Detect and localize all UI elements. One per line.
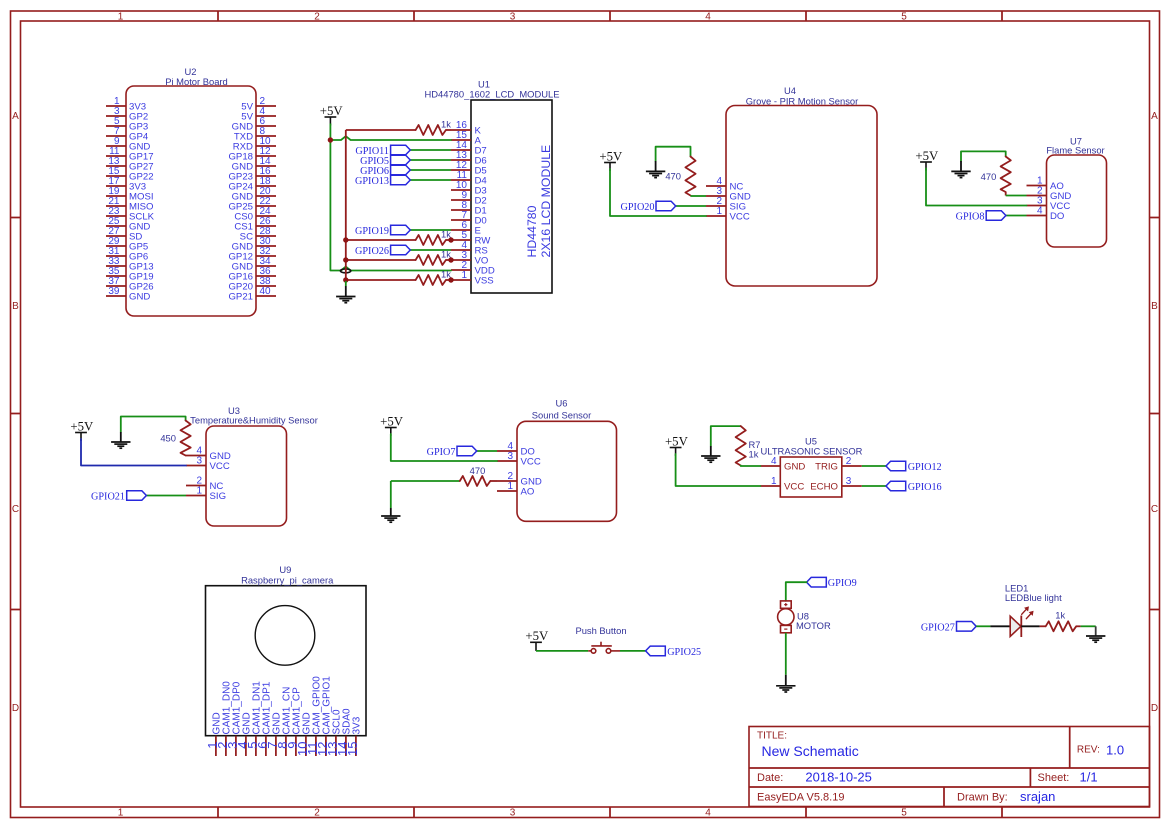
svg-text:B: B bbox=[1151, 301, 1158, 312]
junction RW left bbox=[343, 237, 348, 242]
junction VO right bbox=[448, 257, 453, 262]
svg-text:+5V: +5V bbox=[380, 414, 404, 428]
title block text TITLE bbox=[757, 731, 787, 742]
sensor U7 body bbox=[1047, 155, 1107, 247]
U4 reference designator bbox=[784, 85, 796, 96]
wire hop ellipse at VDD crossing bbox=[340, 269, 350, 273]
Sheet label bbox=[1038, 772, 1070, 784]
svg-text:DO: DO bbox=[1050, 211, 1064, 222]
U2 pin 4 5V bbox=[241, 106, 276, 123]
junction RW right bbox=[448, 237, 453, 242]
U9 pin 1 GND bbox=[205, 712, 223, 756]
svg-text:39: 39 bbox=[108, 286, 120, 297]
svg-text:+5V: +5V bbox=[320, 104, 344, 118]
U2 pin 29 GP5 bbox=[106, 236, 148, 253]
net label flag GPIO19 bbox=[391, 225, 411, 235]
power flag +5V (U3) bbox=[70, 419, 94, 441]
svg-text:1: 1 bbox=[196, 486, 202, 497]
resistor R7 value 1k bbox=[749, 449, 759, 460]
svg-text:2: 2 bbox=[314, 12, 320, 23]
U1 pin 10 D3 bbox=[451, 180, 487, 197]
resistor 1k (LED) value bbox=[1055, 610, 1065, 621]
U2 pin 11 GP17 bbox=[106, 146, 154, 163]
net label flag GPIO9 bbox=[807, 577, 827, 587]
ground (U1) bbox=[336, 297, 355, 303]
U5 value ULTRASONIC SENSOR bbox=[761, 446, 863, 457]
U8 reference designator bbox=[797, 611, 809, 622]
U9 pin 14 SDA0 bbox=[335, 708, 353, 756]
LED1 symbol bbox=[1010, 607, 1033, 637]
net label flag GPIO25 bbox=[646, 646, 666, 656]
junction A/+5V bbox=[328, 137, 333, 142]
junction VSS left bbox=[343, 277, 348, 282]
U5 pin 1 VCC bbox=[760, 476, 804, 493]
svg-text:+5V: +5V bbox=[665, 434, 689, 448]
title New Schematic bbox=[762, 743, 859, 759]
U1 pin 3 VO bbox=[451, 250, 488, 267]
svg-text:470: 470 bbox=[470, 465, 486, 476]
ground stem (U5) bbox=[710, 446, 712, 456]
svg-text:40: 40 bbox=[260, 286, 272, 297]
U3 pin 3 VCC bbox=[186, 456, 230, 473]
svg-text:Temperature&Humidity Sensor: Temperature&Humidity Sensor bbox=[190, 415, 318, 426]
ground stem (LED) bbox=[1095, 626, 1097, 636]
U9 pin 5 CAM1_DN1 bbox=[245, 681, 263, 756]
svg-text:GPIO13: GPIO13 bbox=[355, 176, 389, 187]
U1 pin 1 VSS bbox=[451, 270, 494, 287]
U2 pin 27 SD bbox=[106, 226, 142, 243]
ground (U8) bbox=[776, 686, 795, 692]
U2 pin 38 GP20 bbox=[228, 276, 276, 293]
svg-text:GPIO8: GPIO8 bbox=[956, 212, 985, 223]
U6 pin 2 GND bbox=[497, 471, 542, 488]
U2 reference designator bbox=[185, 66, 197, 77]
U2 pin 23 SCLK bbox=[106, 206, 155, 223]
svg-text:srajan: srajan bbox=[1020, 789, 1055, 804]
wire VDD horizontal with hop bbox=[330, 267, 451, 271]
svg-text:Drawn By:: Drawn By: bbox=[957, 792, 1008, 804]
wire GPIO9 to motor bbox=[786, 582, 807, 601]
resistor 450 (U3) bbox=[181, 421, 191, 456]
U7 pin 4 DO bbox=[1027, 206, 1065, 223]
svg-text:VCC: VCC bbox=[784, 482, 804, 493]
ground stem (U1) bbox=[345, 286, 347, 297]
U2 pin 25 GND bbox=[106, 216, 150, 233]
connector U2 body bbox=[126, 86, 256, 316]
U3 value Temperature&Humidity Sensor bbox=[190, 415, 318, 426]
U6 value Sound Sensor bbox=[532, 410, 591, 421]
svg-text:4: 4 bbox=[705, 808, 711, 819]
U1 rotated text HD44780 bbox=[525, 205, 539, 257]
ground stem (U4) bbox=[655, 161, 657, 171]
U9 pin 4 GND bbox=[235, 712, 253, 756]
U4 pin 4 NC bbox=[706, 176, 743, 193]
svg-text:SIG: SIG bbox=[210, 491, 227, 502]
svg-text:3: 3 bbox=[510, 808, 516, 819]
resistor 1k (VSS) value bbox=[441, 269, 451, 280]
U2 value Pi Motor Board bbox=[165, 76, 228, 87]
REV label bbox=[1077, 745, 1100, 756]
U6 pin 4 DO bbox=[497, 441, 535, 458]
resistor 470 (U6) value bbox=[470, 465, 486, 476]
frame row labels right bbox=[1151, 111, 1158, 714]
U1 reference designator bbox=[478, 79, 490, 90]
wire VO net bbox=[346, 259, 451, 261]
svg-text:3V3: 3V3 bbox=[352, 716, 363, 734]
U5 pin 4 GND bbox=[760, 456, 805, 473]
sensor U6 body bbox=[517, 421, 617, 521]
wire GPIO20 to U4 SIG bbox=[676, 205, 706, 207]
svg-text:GP21: GP21 bbox=[228, 292, 253, 303]
svg-text:Raspberry_pi_camera: Raspberry_pi_camera bbox=[241, 575, 334, 586]
resistor 470 (U6) bbox=[460, 476, 497, 486]
resistor 470 (U7) value bbox=[981, 171, 997, 182]
wire GPIO11 to U1 bbox=[410, 149, 451, 151]
U2 pin 18 GP24 bbox=[228, 176, 276, 193]
U2 pin 16 GP23 bbox=[228, 166, 276, 183]
wire +5V to button bbox=[536, 650, 588, 652]
svg-text:D: D bbox=[1151, 703, 1158, 714]
svg-text:VCC: VCC bbox=[730, 212, 750, 223]
net label flag GPIO8 bbox=[986, 211, 1006, 221]
U2 pin 39 GND bbox=[106, 286, 150, 303]
resistor 1k (VO) value bbox=[441, 249, 451, 260]
ground stem (U6) bbox=[390, 508, 392, 516]
wire ground to resistor (U6) bbox=[391, 480, 460, 482]
ground (U5) bbox=[701, 456, 720, 462]
Sheet value 1/1 bbox=[1080, 769, 1098, 784]
svg-text:GPIO12: GPIO12 bbox=[908, 462, 942, 473]
svg-text:GPIO19: GPIO19 bbox=[355, 226, 389, 237]
U2 pin 5 GP3 bbox=[106, 116, 148, 133]
svg-text:2: 2 bbox=[846, 456, 852, 467]
U2 pin 17 3V3 bbox=[106, 176, 146, 193]
IC U1 body bbox=[471, 100, 552, 293]
U4 pin 2 SIG bbox=[706, 196, 746, 213]
ground stem (U3) bbox=[120, 432, 122, 442]
ground (LED) bbox=[1086, 636, 1105, 642]
net label text GPIO6 bbox=[360, 166, 389, 177]
net label flag GPIO12 bbox=[886, 461, 906, 471]
net label flag GPIO20 bbox=[656, 201, 676, 211]
svg-text:3: 3 bbox=[510, 12, 516, 23]
svg-text:4: 4 bbox=[771, 456, 777, 467]
resistor R7 1k (U5) bbox=[736, 426, 746, 465]
U4 pin 3 GND bbox=[706, 186, 751, 203]
U6 reference designator bbox=[556, 398, 568, 409]
wire LED cathode to resistor (black) bbox=[1021, 625, 1039, 627]
U3 reference designator bbox=[228, 405, 240, 416]
svg-text:VSS: VSS bbox=[475, 276, 494, 287]
push button S1 bbox=[588, 642, 620, 654]
U1 pin 2 VDD bbox=[451, 260, 495, 277]
svg-text:1: 1 bbox=[507, 481, 513, 492]
frame row labels left bbox=[12, 111, 19, 714]
power flag +5V (U4) bbox=[599, 149, 623, 171]
svg-text:15: 15 bbox=[345, 742, 360, 756]
wire +5V to U6 VCC bbox=[391, 434, 497, 461]
svg-text:GPIO26: GPIO26 bbox=[355, 246, 389, 257]
U2 pin 7 GP4 bbox=[106, 126, 149, 143]
svg-text:3: 3 bbox=[846, 476, 852, 487]
wire motor to ground bbox=[785, 633, 787, 675]
svg-text:1: 1 bbox=[118, 12, 124, 23]
U2 pin 2 5V bbox=[241, 96, 276, 113]
svg-text:GPIO16: GPIO16 bbox=[908, 482, 942, 493]
U1 pin 14 D7 bbox=[451, 140, 487, 157]
svg-text:5: 5 bbox=[901, 808, 907, 819]
U1 pin 8 D1 bbox=[451, 200, 487, 217]
net label text GPIO26 bbox=[355, 246, 389, 257]
svg-text:GND: GND bbox=[784, 462, 805, 473]
resistor 1k (VO) bbox=[416, 255, 446, 265]
U1 pin 6 E bbox=[451, 220, 481, 237]
svg-text:1k: 1k bbox=[1055, 610, 1065, 621]
ground (U3) bbox=[111, 442, 130, 448]
wire resistor to U7 GND bbox=[1006, 195, 1027, 197]
U2 pin 21 MISO bbox=[106, 196, 154, 213]
U2 pin 40 GP21 bbox=[228, 286, 276, 303]
svg-text:GPIO21: GPIO21 bbox=[91, 492, 125, 503]
sensor U3 body bbox=[206, 426, 287, 526]
U1 pin 16 K bbox=[451, 120, 482, 137]
net label flag GPIO26 bbox=[391, 245, 411, 255]
svg-text:5: 5 bbox=[901, 12, 907, 23]
svg-text:C: C bbox=[12, 504, 19, 515]
U1 pin 15 A bbox=[451, 130, 482, 147]
svg-text:GPIO9: GPIO9 bbox=[828, 578, 857, 589]
power flag +5V (U7) bbox=[915, 149, 939, 171]
power flag +5V (U6) bbox=[380, 414, 404, 436]
U2 pin 22 GP25 bbox=[228, 196, 276, 213]
svg-text:1k: 1k bbox=[749, 449, 759, 460]
svg-text:+5V: +5V bbox=[915, 149, 939, 163]
U9 pin 8 CAM1_CN bbox=[275, 687, 293, 756]
svg-text:470: 470 bbox=[665, 171, 681, 182]
wire ground link (U7) bbox=[961, 151, 1006, 161]
wire ground drop (U6) bbox=[390, 481, 392, 508]
U1 pin 7 D0 bbox=[451, 210, 487, 227]
svg-text:HD44780_1602_LCD_MODULE: HD44780_1602_LCD_MODULE bbox=[425, 89, 560, 100]
U2 pin 36 GP16 bbox=[228, 266, 276, 283]
U9 value Raspberry_pi_camera bbox=[241, 575, 334, 586]
net label text GPIO12 bbox=[908, 462, 942, 473]
wire resistor to U4 GND bbox=[691, 195, 707, 197]
U2 pin 3 GP2 bbox=[106, 106, 148, 123]
svg-text:1: 1 bbox=[118, 808, 124, 819]
wire A net with hop bbox=[330, 136, 451, 140]
U2 pin 12 GP18 bbox=[228, 146, 276, 163]
svg-text:LEDBlue light: LEDBlue light bbox=[1005, 592, 1062, 603]
resistor 1k (RW) bbox=[416, 235, 446, 245]
REV value 1.0 bbox=[1106, 743, 1124, 758]
U2 pin 1 3V3 bbox=[106, 96, 146, 113]
svg-text:REV:: REV: bbox=[1077, 745, 1100, 756]
svg-text:1.0: 1.0 bbox=[1106, 743, 1124, 758]
U7 pin 2 GND bbox=[1027, 186, 1072, 203]
svg-text:A: A bbox=[12, 111, 19, 122]
ground stem (U8) bbox=[785, 675, 787, 686]
svg-text:C: C bbox=[1151, 504, 1158, 515]
wire ground link (U3) bbox=[121, 417, 186, 433]
U1 pin 13 D6 bbox=[451, 150, 487, 167]
resistor 1k (VSS) bbox=[416, 275, 446, 285]
U2 pin 10 RXD bbox=[233, 136, 276, 153]
U2 pin 13 GP27 bbox=[106, 156, 154, 173]
resistor 450 (U3) value bbox=[160, 433, 176, 444]
U1 rotated text 2X16 LCD MODULE bbox=[539, 145, 553, 258]
svg-text:470: 470 bbox=[981, 171, 997, 182]
resistor 470 (U4) bbox=[685, 157, 695, 196]
net label text GPIO5 bbox=[360, 156, 389, 167]
U9 pin 12 CAM_GPIO1 bbox=[315, 676, 333, 756]
net label flag GPIO5 bbox=[391, 155, 411, 165]
net label text GPIO19 bbox=[355, 226, 389, 237]
net label flag GPIO13 bbox=[391, 175, 411, 185]
wire to LED anode (black) bbox=[990, 625, 1010, 627]
U1 pin 4 RS bbox=[451, 240, 488, 257]
svg-text:2X16 LCD MODULE: 2X16 LCD MODULE bbox=[539, 145, 553, 258]
U6 pin 3 VCC bbox=[497, 451, 541, 468]
svg-text:ULTRASONIC SENSOR: ULTRASONIC SENSOR bbox=[761, 446, 863, 457]
power flag +5V (U5) bbox=[665, 434, 689, 456]
U2 pin 20 GND bbox=[232, 186, 276, 203]
net label flag GPIO7 bbox=[457, 446, 477, 456]
wire +5V to U7 VCC bbox=[926, 169, 1027, 206]
svg-text:Sound Sensor: Sound Sensor bbox=[532, 410, 591, 421]
net label flag GPIO21 bbox=[127, 491, 147, 501]
net label flag GPIO16 bbox=[886, 481, 906, 491]
wire button to GPIO25 bbox=[620, 650, 646, 652]
U1 pin 9 D2 bbox=[451, 190, 487, 207]
wire GPIO7 to U6 DO bbox=[477, 450, 497, 452]
svg-text:1: 1 bbox=[716, 206, 722, 217]
U7 pin 1 AO bbox=[1027, 176, 1064, 193]
U9 pin 2 CAM1_DN0 bbox=[215, 681, 233, 756]
wire GPIO19 to U1 bbox=[410, 229, 451, 231]
U2 pin 24 CS0 bbox=[234, 206, 276, 223]
U2 pin 37 GP26 bbox=[106, 276, 154, 293]
Drawn By value srajan bbox=[1020, 789, 1055, 804]
wire ground link (U5) bbox=[711, 426, 741, 446]
resistor 1k (K) value bbox=[441, 119, 451, 130]
wire +5V to U4 VCC bbox=[610, 169, 706, 216]
net label flag GPIO6 bbox=[391, 165, 411, 175]
junction VSS right bbox=[448, 277, 453, 282]
net label flag GPIO27 bbox=[957, 622, 977, 632]
svg-text:HD44780: HD44780 bbox=[525, 205, 539, 257]
wire ground link (U4) bbox=[656, 147, 691, 161]
U9 reference designator bbox=[279, 564, 291, 575]
U2 pin 28 SC bbox=[240, 226, 276, 243]
U2 pin 14 GND bbox=[232, 156, 276, 173]
wire +5V to U3 VCC (dark blue) bbox=[81, 439, 186, 466]
svg-text:TRIG: TRIG bbox=[815, 462, 838, 473]
U2 pin 30 GND bbox=[232, 236, 276, 253]
svg-text:AO: AO bbox=[521, 487, 535, 498]
wire GPIO27 to LED (green) bbox=[976, 625, 990, 627]
resistor 1k (K) bbox=[416, 125, 446, 135]
U1 pin 11 D4 bbox=[451, 170, 487, 187]
U2 pin 33 GP13 bbox=[106, 256, 154, 273]
net label text GPIO7 bbox=[427, 447, 456, 458]
U5 reference designator bbox=[805, 436, 817, 447]
U3 pin 4 GND bbox=[186, 446, 231, 463]
svg-text:VCC: VCC bbox=[210, 461, 230, 472]
wire U5 TRIG to GPIO12 bbox=[862, 465, 886, 467]
wire resistor to ground (green) bbox=[1081, 625, 1096, 627]
svg-text:Sheet:: Sheet: bbox=[1038, 772, 1070, 784]
U9 pin 15 3V3 bbox=[345, 716, 363, 756]
U5 pin 3 ECHO bbox=[810, 476, 862, 493]
svg-text:Pi Motor Board: Pi Motor Board bbox=[165, 76, 228, 87]
net label text GPIO8 bbox=[956, 212, 985, 223]
module U9 body bbox=[206, 586, 367, 736]
Date label bbox=[757, 772, 783, 784]
title block bbox=[749, 727, 1150, 807]
U2 pin 8 TXD bbox=[234, 126, 276, 143]
wire GPIO21 to U3 SIG bbox=[146, 495, 186, 497]
ground stem (U7) bbox=[960, 161, 962, 171]
junction VO left bbox=[343, 257, 348, 262]
svg-text:+5V: +5V bbox=[599, 149, 623, 163]
ground (U4) bbox=[646, 171, 665, 177]
svg-text:Flame Sensor: Flame Sensor bbox=[1046, 145, 1104, 156]
U7 reference designator bbox=[1070, 136, 1082, 147]
svg-text:4: 4 bbox=[1037, 206, 1043, 217]
svg-text:1: 1 bbox=[771, 476, 777, 487]
svg-text:U9: U9 bbox=[279, 564, 291, 575]
module U5 body bbox=[780, 457, 842, 497]
net label text GPIO9 bbox=[828, 578, 857, 589]
svg-text:Date:: Date: bbox=[757, 772, 783, 784]
net label text GPIO13 bbox=[355, 176, 389, 187]
LED1 reference designator bbox=[1005, 583, 1028, 594]
svg-text:1: 1 bbox=[461, 270, 467, 281]
U6 pin 1 AO bbox=[497, 481, 534, 498]
svg-text:3: 3 bbox=[507, 451, 513, 462]
wire GPIO8 to U7 DO bbox=[1006, 215, 1027, 217]
resistor 1k (RW) value bbox=[441, 229, 451, 240]
push button label bbox=[575, 625, 626, 636]
resistor 470 (U7) bbox=[1001, 157, 1011, 196]
U2 pin 9 GND bbox=[106, 136, 150, 153]
svg-text:+5V: +5V bbox=[70, 419, 94, 433]
U9 lens circle bbox=[255, 606, 315, 666]
wire resistor to U3 GND bbox=[185, 455, 187, 457]
svg-text:B: B bbox=[12, 301, 19, 312]
wire R7 to U5 GND bbox=[741, 465, 761, 468]
svg-text:MOTOR: MOTOR bbox=[796, 620, 831, 631]
sensor U4 body bbox=[726, 106, 877, 287]
U5 pin 2 TRIG bbox=[815, 456, 862, 473]
U2 pin 34 GND bbox=[232, 256, 276, 273]
U8 value MOTOR bbox=[796, 620, 831, 631]
wire RW net bbox=[346, 239, 451, 241]
U9 pin 13 SCL0 bbox=[325, 709, 343, 756]
U3 pin 1 SIG bbox=[186, 486, 226, 503]
U3 pin 2 NC bbox=[186, 476, 223, 493]
wire GPIO26 to U1 bbox=[410, 249, 451, 251]
wire GPIO13 to U1 bbox=[410, 179, 451, 181]
svg-text:U4: U4 bbox=[784, 85, 796, 96]
net label text GPIO20 bbox=[621, 202, 655, 213]
U2 pin 31 GP6 bbox=[106, 246, 148, 263]
svg-text:3: 3 bbox=[196, 456, 202, 467]
U2 pin 26 CS1 bbox=[234, 216, 276, 233]
U9 pin 10 GND bbox=[295, 712, 313, 756]
power flag +5V (U1) bbox=[320, 104, 344, 126]
